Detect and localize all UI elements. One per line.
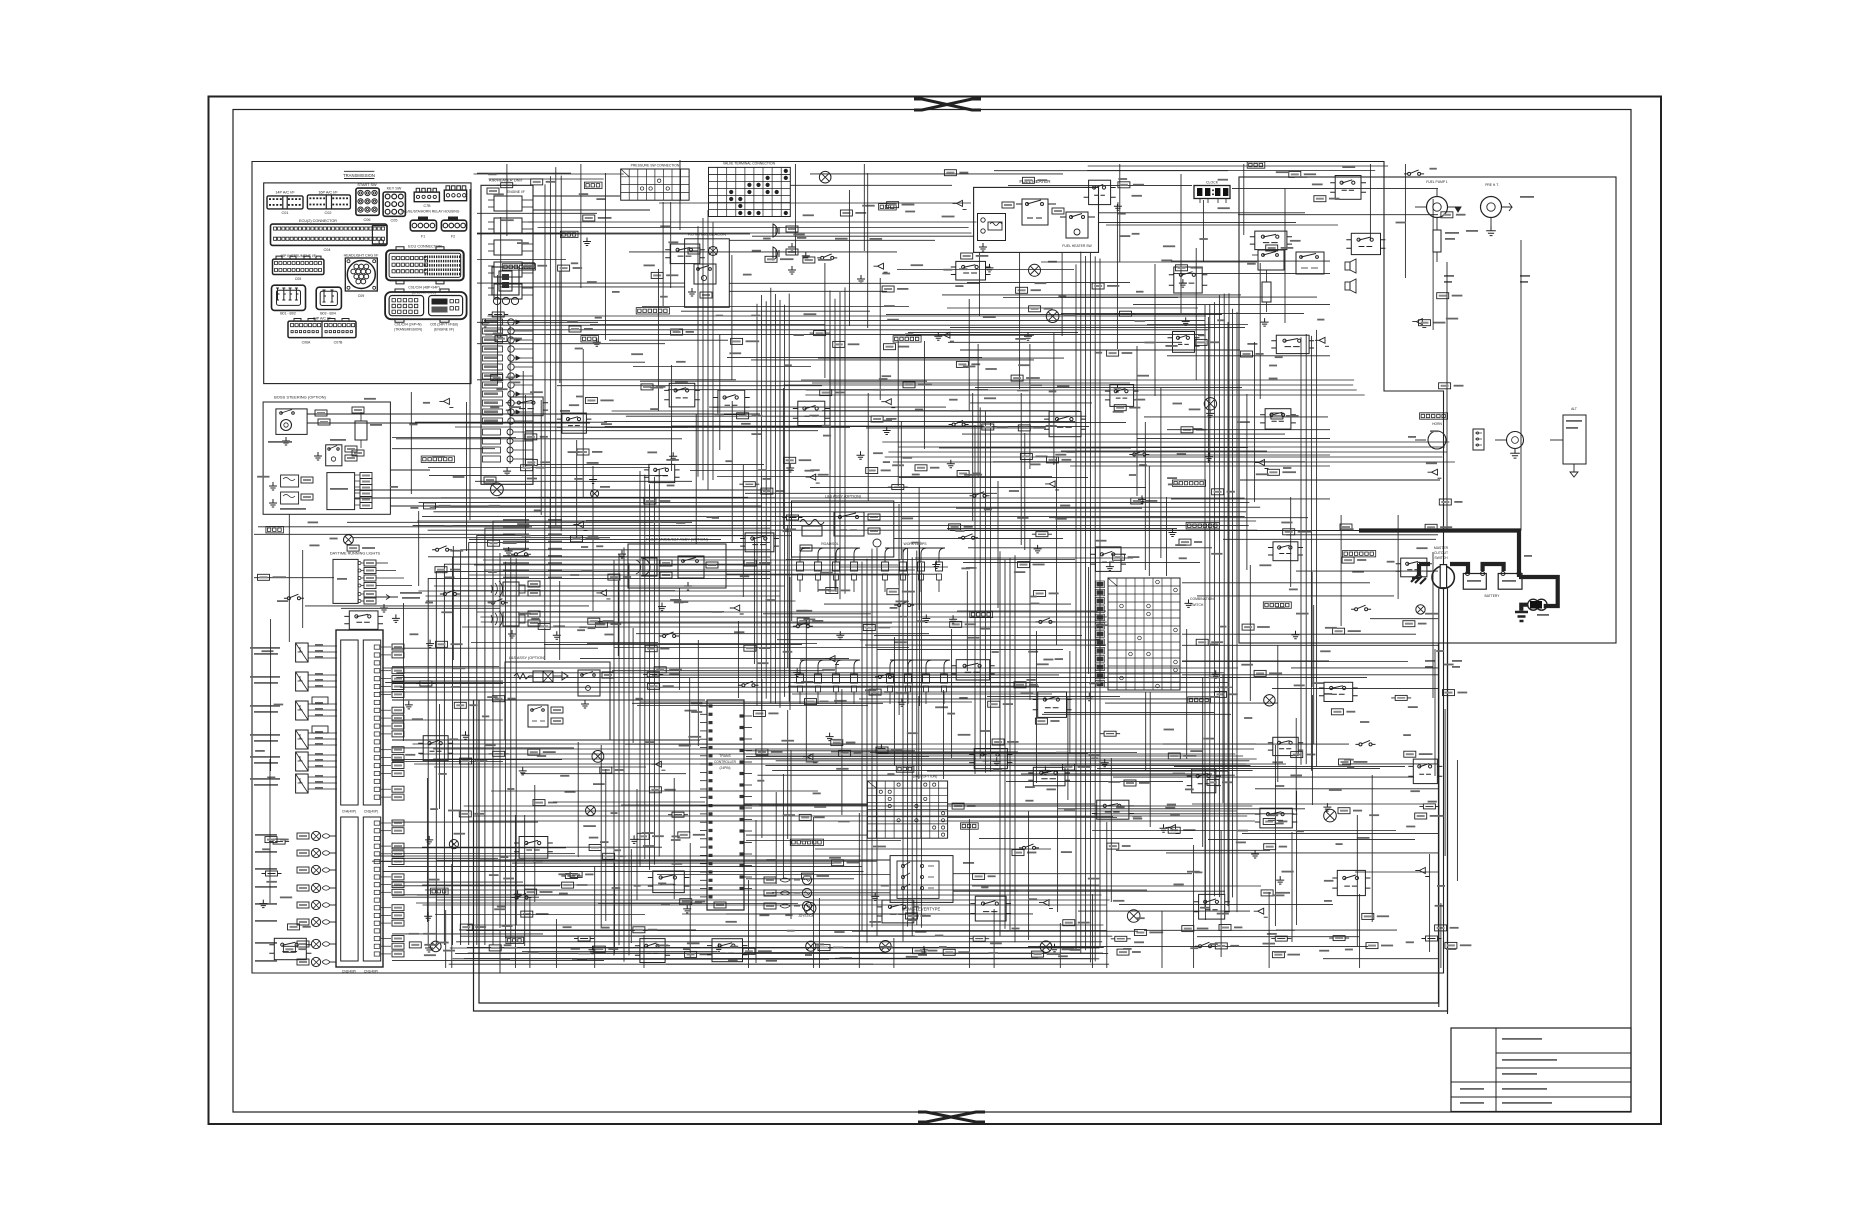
label T-branch	[1444, 275, 1454, 277]
ground	[802, 252, 810, 260]
wire mesh	[469, 466, 721, 611]
battery BT1	[1463, 574, 1486, 590]
fuse	[1111, 936, 1131, 941]
wire tag	[1314, 196, 1326, 202]
ground	[1169, 529, 1177, 537]
shield coil glyph 2	[491, 611, 502, 627]
wire mesh	[255, 750, 265, 752]
svg-text:SWITCH: SWITCH	[1434, 556, 1448, 560]
wire tag	[1362, 913, 1374, 919]
sender unit boxes	[296, 643, 309, 662]
ground	[1024, 332, 1032, 340]
switch	[440, 590, 460, 596]
wire tag	[489, 945, 501, 951]
connector strip	[267, 528, 281, 531]
diode	[1045, 481, 1059, 490]
wire mesh	[1078, 830, 1295, 968]
wire tag	[1443, 690, 1455, 696]
wire mesh	[1323, 903, 1441, 968]
diode	[953, 200, 967, 209]
wire mesh	[477, 275, 598, 384]
relay	[1351, 233, 1380, 254]
relay fuel heater relay	[1022, 199, 1048, 225]
diode	[1166, 825, 1180, 834]
ground	[993, 757, 1001, 765]
wire mesh	[596, 537, 909, 664]
wire tag	[651, 272, 663, 278]
wire tag	[589, 845, 601, 851]
relay key lock switch	[578, 670, 600, 696]
wire tag	[493, 696, 505, 702]
fuse	[643, 672, 663, 677]
wire mesh	[529, 898, 531, 968]
wire mesh	[1223, 497, 1436, 587]
wire tag	[1241, 351, 1253, 357]
ground	[1106, 563, 1114, 571]
connector strip	[504, 265, 533, 268]
wire tag	[869, 689, 881, 695]
ground	[405, 701, 413, 709]
wire tag	[637, 833, 649, 839]
connector strip	[1265, 603, 1289, 606]
wire mesh	[839, 487, 948, 610]
lamp	[806, 941, 816, 951]
wire mesh	[812, 344, 1130, 477]
wire tag	[593, 946, 605, 952]
wire tag	[797, 618, 809, 624]
wire mesh	[939, 393, 1142, 550]
wire tag	[1196, 639, 1208, 645]
lamp	[1029, 264, 1041, 276]
wire mesh	[1008, 164, 1296, 262]
switch	[958, 534, 978, 540]
wire mesh	[396, 326, 682, 468]
wire tag	[799, 814, 811, 820]
wire tag	[1063, 920, 1075, 926]
wire mesh	[786, 481, 1075, 608]
diode	[1428, 469, 1442, 478]
svg-text:48P INSTRUMENT I/F: 48P INSTRUMENT I/F	[280, 254, 317, 258]
module instrument cluster	[336, 630, 383, 967]
ground	[986, 264, 994, 272]
diode	[806, 474, 820, 483]
diode	[1315, 337, 1329, 346]
fuse	[1422, 936, 1442, 941]
wire mesh	[659, 164, 971, 255]
relay	[670, 244, 700, 264]
wire mesh	[590, 269, 825, 411]
wire mesh	[1049, 497, 1370, 583]
wire tag	[671, 329, 683, 335]
fuse	[488, 312, 508, 317]
arrow windshield controls	[376, 595, 398, 600]
wire tag	[1283, 529, 1295, 535]
ground	[514, 890, 522, 898]
wire tag	[906, 913, 918, 919]
resistor brake	[355, 421, 367, 440]
wire tag	[1419, 320, 1431, 326]
svg-text:PRE H.T.: PRE H.T.	[1485, 183, 1499, 187]
lamp	[591, 490, 599, 498]
wire tag	[818, 945, 830, 951]
wire mesh	[521, 742, 686, 857]
relay	[653, 871, 685, 893]
wire mesh	[729, 173, 980, 328]
switch	[284, 594, 304, 600]
wire tag	[1176, 265, 1188, 271]
wire tag	[258, 574, 270, 580]
svg-text:BOSS STEERING (OPTION): BOSS STEERING (OPTION)	[274, 395, 326, 400]
connector starter relay	[1473, 429, 1484, 450]
wire tag	[1195, 339, 1207, 345]
wire tag	[802, 873, 814, 879]
diode	[803, 754, 817, 763]
relay	[1174, 267, 1202, 293]
ground	[883, 427, 891, 435]
pressure switch main steering	[281, 475, 299, 487]
wire tag	[988, 701, 1000, 707]
wire mesh	[392, 748, 646, 767]
diode	[874, 263, 888, 272]
wire tag	[1333, 628, 1345, 634]
svg-text:CN2(40P): CN2(40P)	[342, 970, 356, 974]
connector dual module C01/C04-C05	[385, 292, 467, 319]
switch	[512, 894, 532, 900]
wire tag	[992, 739, 1004, 745]
ground	[1205, 453, 1213, 461]
wire tag	[603, 853, 615, 859]
svg-text:C01/C04 (24P+N): C01/C04 (24P+N)	[394, 323, 421, 327]
table valve terminal connections	[709, 167, 791, 216]
ground	[871, 892, 879, 900]
wire tag	[1415, 813, 1427, 819]
wire tag	[952, 803, 964, 809]
wire tag	[1215, 943, 1227, 949]
wire tag	[832, 860, 844, 866]
wire tag	[654, 667, 666, 673]
wire mesh	[670, 202, 672, 288]
wire mesh	[544, 588, 817, 690]
wire tag	[944, 170, 956, 176]
fuse	[561, 874, 581, 879]
wire mesh	[580, 628, 849, 746]
wire mesh	[392, 680, 503, 682]
ground battery negative	[1515, 612, 1528, 621]
wire tag	[495, 336, 507, 342]
ground	[877, 745, 885, 753]
wire tag	[645, 646, 657, 652]
wire mesh	[1370, 552, 1438, 698]
wire tag	[641, 384, 653, 390]
module eng steering speed	[327, 473, 355, 510]
relay safety relay	[1258, 250, 1284, 270]
wire tag	[1254, 670, 1266, 676]
wire mesh	[1061, 388, 1330, 558]
svg-text:F2: F2	[451, 235, 455, 239]
switch boss pump	[276, 409, 307, 435]
wire mesh	[632, 621, 883, 706]
wire mesh	[270, 619, 272, 771]
relay	[1276, 335, 1309, 353]
wire mesh	[392, 910, 604, 968]
wire tag	[1134, 930, 1146, 936]
connector strip	[792, 841, 821, 844]
wire tag	[1182, 926, 1194, 932]
wire mesh	[751, 278, 1064, 400]
svg-text:COMBINATION: COMBINATION	[1190, 597, 1214, 601]
wire mesh	[1174, 695, 1438, 805]
ground	[519, 767, 527, 775]
wire mesh	[580, 164, 582, 288]
wire mesh	[1133, 263, 1330, 399]
relay	[718, 390, 745, 414]
lamp	[344, 535, 354, 545]
wire tag	[1261, 890, 1273, 896]
resistor fuel pump	[1433, 230, 1441, 252]
ground	[898, 698, 906, 706]
wire tag	[1168, 827, 1180, 833]
svg-text:16P A/C I/F: 16P A/C I/F	[318, 191, 338, 195]
ground	[793, 669, 801, 677]
ground	[922, 615, 930, 623]
lamp	[1127, 910, 1140, 923]
svg-text:B01 - B02: B01 - B02	[280, 312, 296, 316]
switch	[1404, 170, 1424, 176]
wire tag	[436, 641, 448, 647]
wire mesh	[441, 440, 776, 538]
lamp	[586, 806, 596, 816]
wire mesh	[1059, 923, 1061, 968]
relay	[519, 837, 548, 859]
wire mesh	[1171, 188, 1330, 323]
wire tag	[1016, 287, 1028, 293]
wire tag	[887, 589, 899, 595]
fuse	[888, 485, 908, 490]
speaker horn high	[1345, 279, 1356, 293]
wire mesh	[477, 271, 665, 383]
wire tag	[583, 215, 595, 221]
wire mesh	[347, 498, 692, 623]
ground	[669, 452, 677, 460]
ground	[947, 460, 955, 468]
lamp	[592, 751, 604, 763]
label TRANSMISSION	[344, 170, 374, 172]
wire tag	[1014, 682, 1026, 688]
wire mesh	[709, 340, 1050, 486]
fuse	[416, 681, 436, 686]
wire mesh	[629, 251, 897, 253]
wire tag	[826, 588, 838, 594]
wire mesh	[726, 557, 937, 621]
wire tag	[1063, 764, 1075, 770]
lamp	[880, 941, 892, 953]
svg-text:FUEL HEATER SW: FUEL HEATER SW	[1062, 244, 1092, 248]
wire mesh	[962, 346, 1285, 496]
wire mesh	[874, 571, 1082, 671]
wire tag	[1439, 383, 1451, 389]
svg-text:C06A: C06A	[302, 341, 311, 345]
fuse	[269, 839, 289, 844]
wire tag	[1291, 752, 1303, 758]
wire tag	[1117, 949, 1129, 955]
fuse	[1032, 532, 1052, 537]
switch eng steering	[326, 445, 342, 466]
wire tag	[488, 540, 500, 546]
connector F2 4P round	[441, 220, 466, 231]
lamp rotating beacon	[709, 247, 718, 256]
connector strip	[423, 458, 452, 461]
ground	[553, 631, 561, 639]
switch	[894, 601, 914, 607]
ground	[1041, 766, 1049, 774]
wire name labels staircase	[503, 519, 529, 521]
svg-text:(24PIN): (24PIN)	[720, 766, 731, 770]
relay	[1265, 409, 1291, 429]
svg-text:C01: C01	[282, 211, 289, 215]
wire mesh	[1182, 645, 1408, 782]
svg-text:TAIL/BL/STA/HORN RELAY HOUSING: TAIL/BL/STA/HORN RELAY HOUSING	[401, 210, 460, 214]
ground	[503, 467, 511, 475]
svg-text:ECU(2) CONNECTOR: ECU(2) CONNECTOR	[299, 219, 337, 223]
wire mesh	[865, 539, 1106, 700]
svg-text:C01/C04 (48P+94P): C01/C04 (48P+94P)	[408, 286, 440, 290]
wire mesh	[1061, 248, 1304, 380]
connector strip	[1249, 163, 1263, 166]
wire tag	[950, 621, 962, 627]
ground	[1051, 944, 1059, 952]
lamp	[431, 941, 442, 952]
wire mesh	[953, 822, 1261, 968]
relay	[1097, 800, 1129, 819]
ground	[683, 905, 691, 913]
relay	[562, 413, 587, 433]
wire battery negative	[1519, 577, 1558, 606]
wire tag	[525, 434, 537, 440]
wire tag	[595, 621, 607, 627]
wire mesh	[392, 785, 575, 902]
switch	[1356, 740, 1376, 746]
wire tag	[283, 946, 295, 952]
fuse	[1419, 804, 1439, 809]
wire mesh	[392, 525, 675, 660]
wire mesh	[1098, 200, 1305, 262]
wire tag	[454, 702, 466, 708]
diode	[573, 522, 587, 531]
motor starter	[1507, 432, 1524, 449]
wire mesh	[967, 252, 1130, 336]
connector strip	[582, 337, 596, 340]
fuse	[489, 751, 509, 756]
wire mesh	[621, 792, 867, 884]
wire tag	[1212, 489, 1224, 495]
wire tag	[1342, 557, 1354, 563]
ground	[425, 944, 433, 952]
connector B03-B04 2P	[316, 287, 341, 309]
wire tag	[903, 382, 915, 388]
wire mesh	[1182, 605, 1438, 744]
wire tag	[649, 787, 661, 793]
cable starter twin	[1438, 589, 1440, 1008]
fuse	[1271, 936, 1291, 941]
wire tag	[491, 375, 503, 381]
wire tag	[784, 457, 796, 463]
wire mesh	[1041, 174, 1317, 313]
wire mesh	[477, 217, 575, 337]
wire tag	[1131, 498, 1143, 504]
relay	[1324, 682, 1353, 701]
wire mesh	[392, 704, 562, 809]
wire mesh	[1143, 394, 1330, 570]
wire mesh	[810, 173, 1063, 175]
wire mesh	[942, 204, 1241, 349]
svg-text:CONTROLLER: CONTROLLER	[714, 760, 736, 764]
wire tag	[1047, 457, 1059, 463]
wire mesh	[642, 263, 982, 378]
wire tag	[1339, 759, 1351, 765]
wire tag	[538, 623, 550, 629]
connector B01-B02 4P	[272, 285, 306, 310]
relay	[640, 939, 665, 963]
relay	[1337, 870, 1365, 895]
lamp	[1040, 941, 1052, 953]
wire mesh	[392, 864, 560, 968]
diode	[439, 398, 453, 407]
wire tag	[600, 767, 612, 773]
svg-text:CLOCK: CLOCK	[1206, 181, 1219, 185]
wire tag	[731, 338, 743, 344]
wire mesh	[505, 843, 819, 957]
wire mesh	[947, 466, 1200, 576]
lamp	[819, 171, 831, 183]
switch	[1351, 605, 1371, 611]
diode	[1039, 900, 1053, 909]
wire tag	[1032, 951, 1044, 957]
wire telltale feeds	[330, 835, 336, 837]
ground	[1251, 850, 1259, 858]
ground	[949, 615, 957, 623]
connector legend box	[264, 183, 471, 384]
wire battery positive bus	[1359, 531, 1519, 578]
ground	[836, 631, 844, 639]
wire mesh	[555, 919, 557, 968]
wire tag	[460, 758, 472, 764]
wire mesh	[745, 388, 997, 529]
motor boss steering pump	[281, 420, 292, 431]
wire tag	[1020, 454, 1032, 460]
fuse	[1100, 731, 1120, 736]
connector strip	[562, 233, 576, 236]
relay	[974, 749, 1007, 769]
wire tag	[608, 574, 620, 580]
wire tag	[765, 256, 777, 262]
connector pins cluster upper	[374, 645, 380, 649]
relay	[1110, 385, 1134, 407]
wire tag	[943, 949, 955, 955]
wire mesh	[815, 816, 1113, 849]
fuse	[739, 482, 759, 487]
wire mesh	[1238, 164, 1438, 278]
wire mesh	[657, 750, 901, 919]
wire master switch feed	[1419, 562, 1430, 566]
wire mesh	[1182, 565, 1438, 701]
wire mesh	[392, 778, 538, 922]
relay	[511, 397, 543, 416]
wire tag	[678, 832, 690, 838]
wire tag	[562, 882, 574, 888]
wire mesh	[392, 683, 503, 685]
wire mesh	[994, 170, 1228, 172]
ground	[786, 464, 794, 472]
